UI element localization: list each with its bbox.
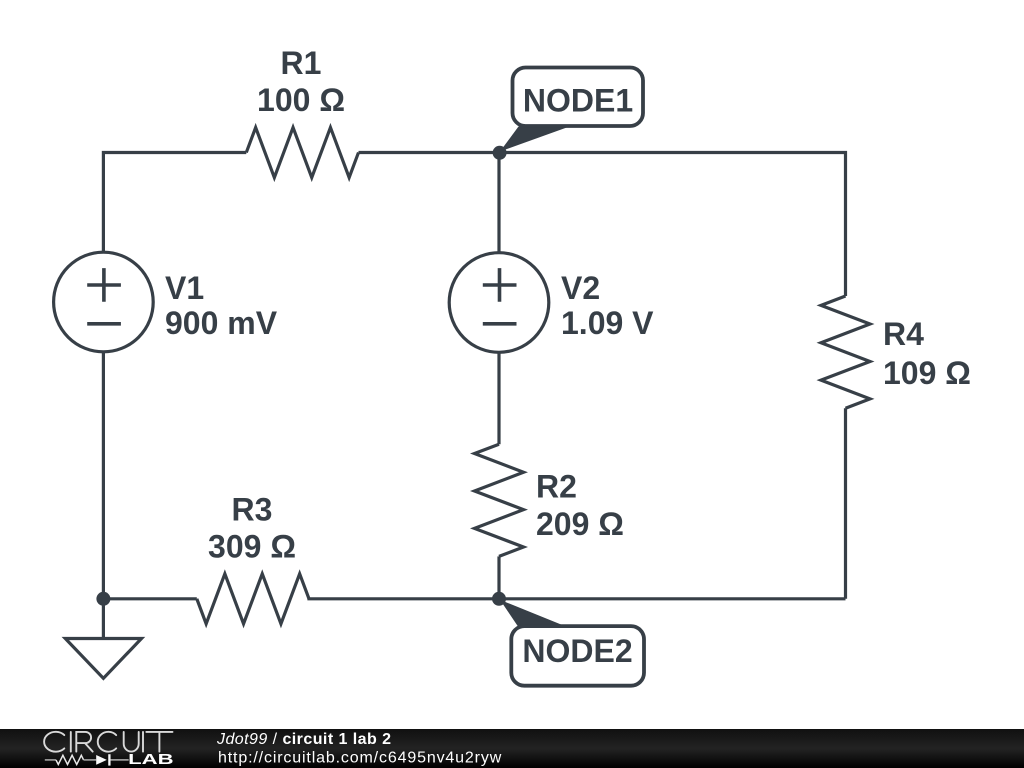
node NODE2 callout pointer bbox=[500, 600, 566, 627]
svg-text:R4: R4 bbox=[883, 316, 924, 352]
label V2 bbox=[561, 270, 654, 341]
svg-text:NODE2: NODE2 bbox=[522, 633, 632, 669]
footer logo CIRCUIT bbox=[44, 732, 172, 752]
svg-text:http://circuitlab.com/c6495nv4: http://circuitlab.com/c6495nv4u2ryw bbox=[218, 750, 502, 767]
wire bottom: R3 to NODE2 to R4 bbox=[307, 597, 845, 600]
svg-text:100 Ω: 100 Ω bbox=[257, 82, 345, 118]
resistor R3 bbox=[197, 574, 309, 624]
node NODE2 junction dot bbox=[492, 592, 506, 606]
voltage source V1 bbox=[54, 252, 154, 352]
wire top-right: R1 to NODE1 to R4 top bbox=[359, 153, 846, 297]
wire top-left: V1 top to R1 bbox=[103, 153, 246, 254]
resistor R4 bbox=[821, 296, 870, 408]
label R1 bbox=[257, 45, 345, 118]
node NODE1 callout pointer bbox=[500, 127, 570, 152]
svg-text:1.09 V: 1.09 V bbox=[561, 305, 654, 341]
svg-text:109 Ω: 109 Ω bbox=[883, 355, 971, 391]
wire NODE1 to V2 top bbox=[497, 153, 500, 254]
svg-text:NODE1: NODE1 bbox=[523, 83, 633, 119]
resistor R1 bbox=[246, 128, 358, 178]
wire R4 bottom to bottom-right corner bbox=[844, 408, 847, 599]
svg-text:900 mV: 900 mV bbox=[165, 305, 278, 341]
svg-text:R1: R1 bbox=[281, 45, 322, 81]
node ground junction dot bbox=[96, 592, 110, 606]
svg-text:LAB: LAB bbox=[128, 752, 173, 768]
node NODE2 callout box bbox=[511, 626, 644, 686]
svg-text:209 Ω: 209 Ω bbox=[536, 506, 624, 542]
svg-text:R2: R2 bbox=[536, 469, 577, 505]
node NODE1 callout box bbox=[513, 68, 644, 127]
wire R2 to NODE2 bbox=[497, 556, 500, 598]
wire V1 bottom to ground node bbox=[102, 352, 105, 599]
footer logo resistor-diode icon bbox=[45, 754, 129, 765]
svg-text:309 Ω: 309 Ω bbox=[208, 529, 296, 565]
svg-text:V1: V1 bbox=[165, 270, 204, 306]
resistor R2 bbox=[475, 444, 524, 556]
voltage source V2 bbox=[449, 253, 549, 353]
footer bar bbox=[0, 729, 1024, 768]
svg-text:Jdot99 / circuit 1 lab 2: Jdot99 / circuit 1 lab 2 bbox=[216, 731, 391, 748]
wire bottom-left: node to R3 bbox=[103, 597, 196, 600]
label R2 bbox=[536, 469, 624, 543]
wire V2 bottom to R2 bbox=[497, 353, 500, 445]
ground bbox=[65, 599, 141, 679]
label R4 bbox=[883, 316, 971, 391]
svg-text:V2: V2 bbox=[561, 270, 600, 306]
node NODE1 junction dot bbox=[493, 146, 507, 160]
label R3 bbox=[208, 492, 296, 565]
svg-text:R3: R3 bbox=[232, 492, 273, 528]
label V1 bbox=[165, 270, 278, 341]
